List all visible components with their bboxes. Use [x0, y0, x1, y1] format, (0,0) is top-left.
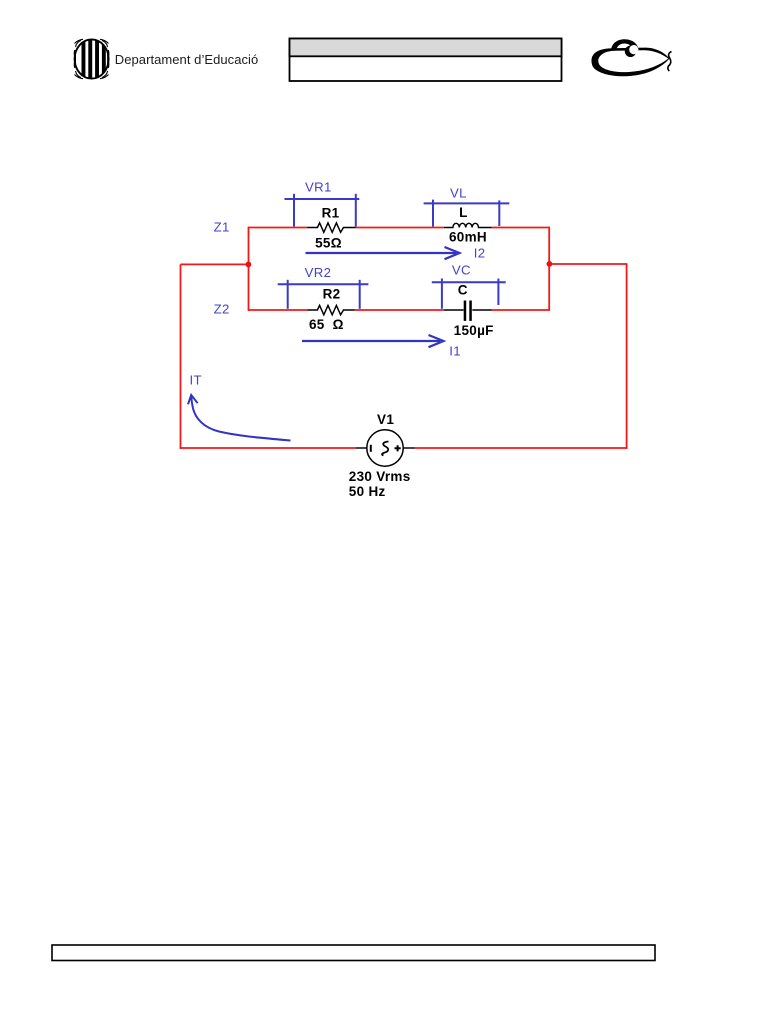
svg-text:V1: V1	[377, 412, 394, 427]
svg-text:Z2: Z2	[214, 301, 230, 316]
svg-text:VR2: VR2	[305, 265, 332, 280]
svg-text:230 Vrms: 230 Vrms	[349, 469, 411, 484]
svg-text:60mH: 60mH	[449, 230, 487, 245]
svg-text:R1: R1	[322, 206, 340, 221]
svg-text:IT: IT	[190, 373, 202, 388]
svg-text:50 Hz: 50 Hz	[349, 484, 386, 499]
svg-text:VL: VL	[450, 185, 467, 200]
svg-text:150µF: 150µF	[454, 323, 494, 338]
svg-text:VR1: VR1	[305, 179, 332, 194]
svg-text:I2: I2	[474, 246, 486, 261]
svg-text:C: C	[458, 282, 468, 297]
svg-text:L: L	[459, 205, 468, 220]
svg-text:R2: R2	[323, 287, 341, 302]
svg-text:65 Ω: 65 Ω	[309, 317, 344, 332]
svg-text:I1: I1	[449, 343, 461, 358]
svg-text:VC: VC	[452, 262, 471, 277]
svg-text:Departament d’Educació: Departament d’Educació	[115, 52, 258, 67]
svg-text:55Ω: 55Ω	[315, 235, 342, 250]
svg-text:Z1: Z1	[214, 220, 230, 235]
